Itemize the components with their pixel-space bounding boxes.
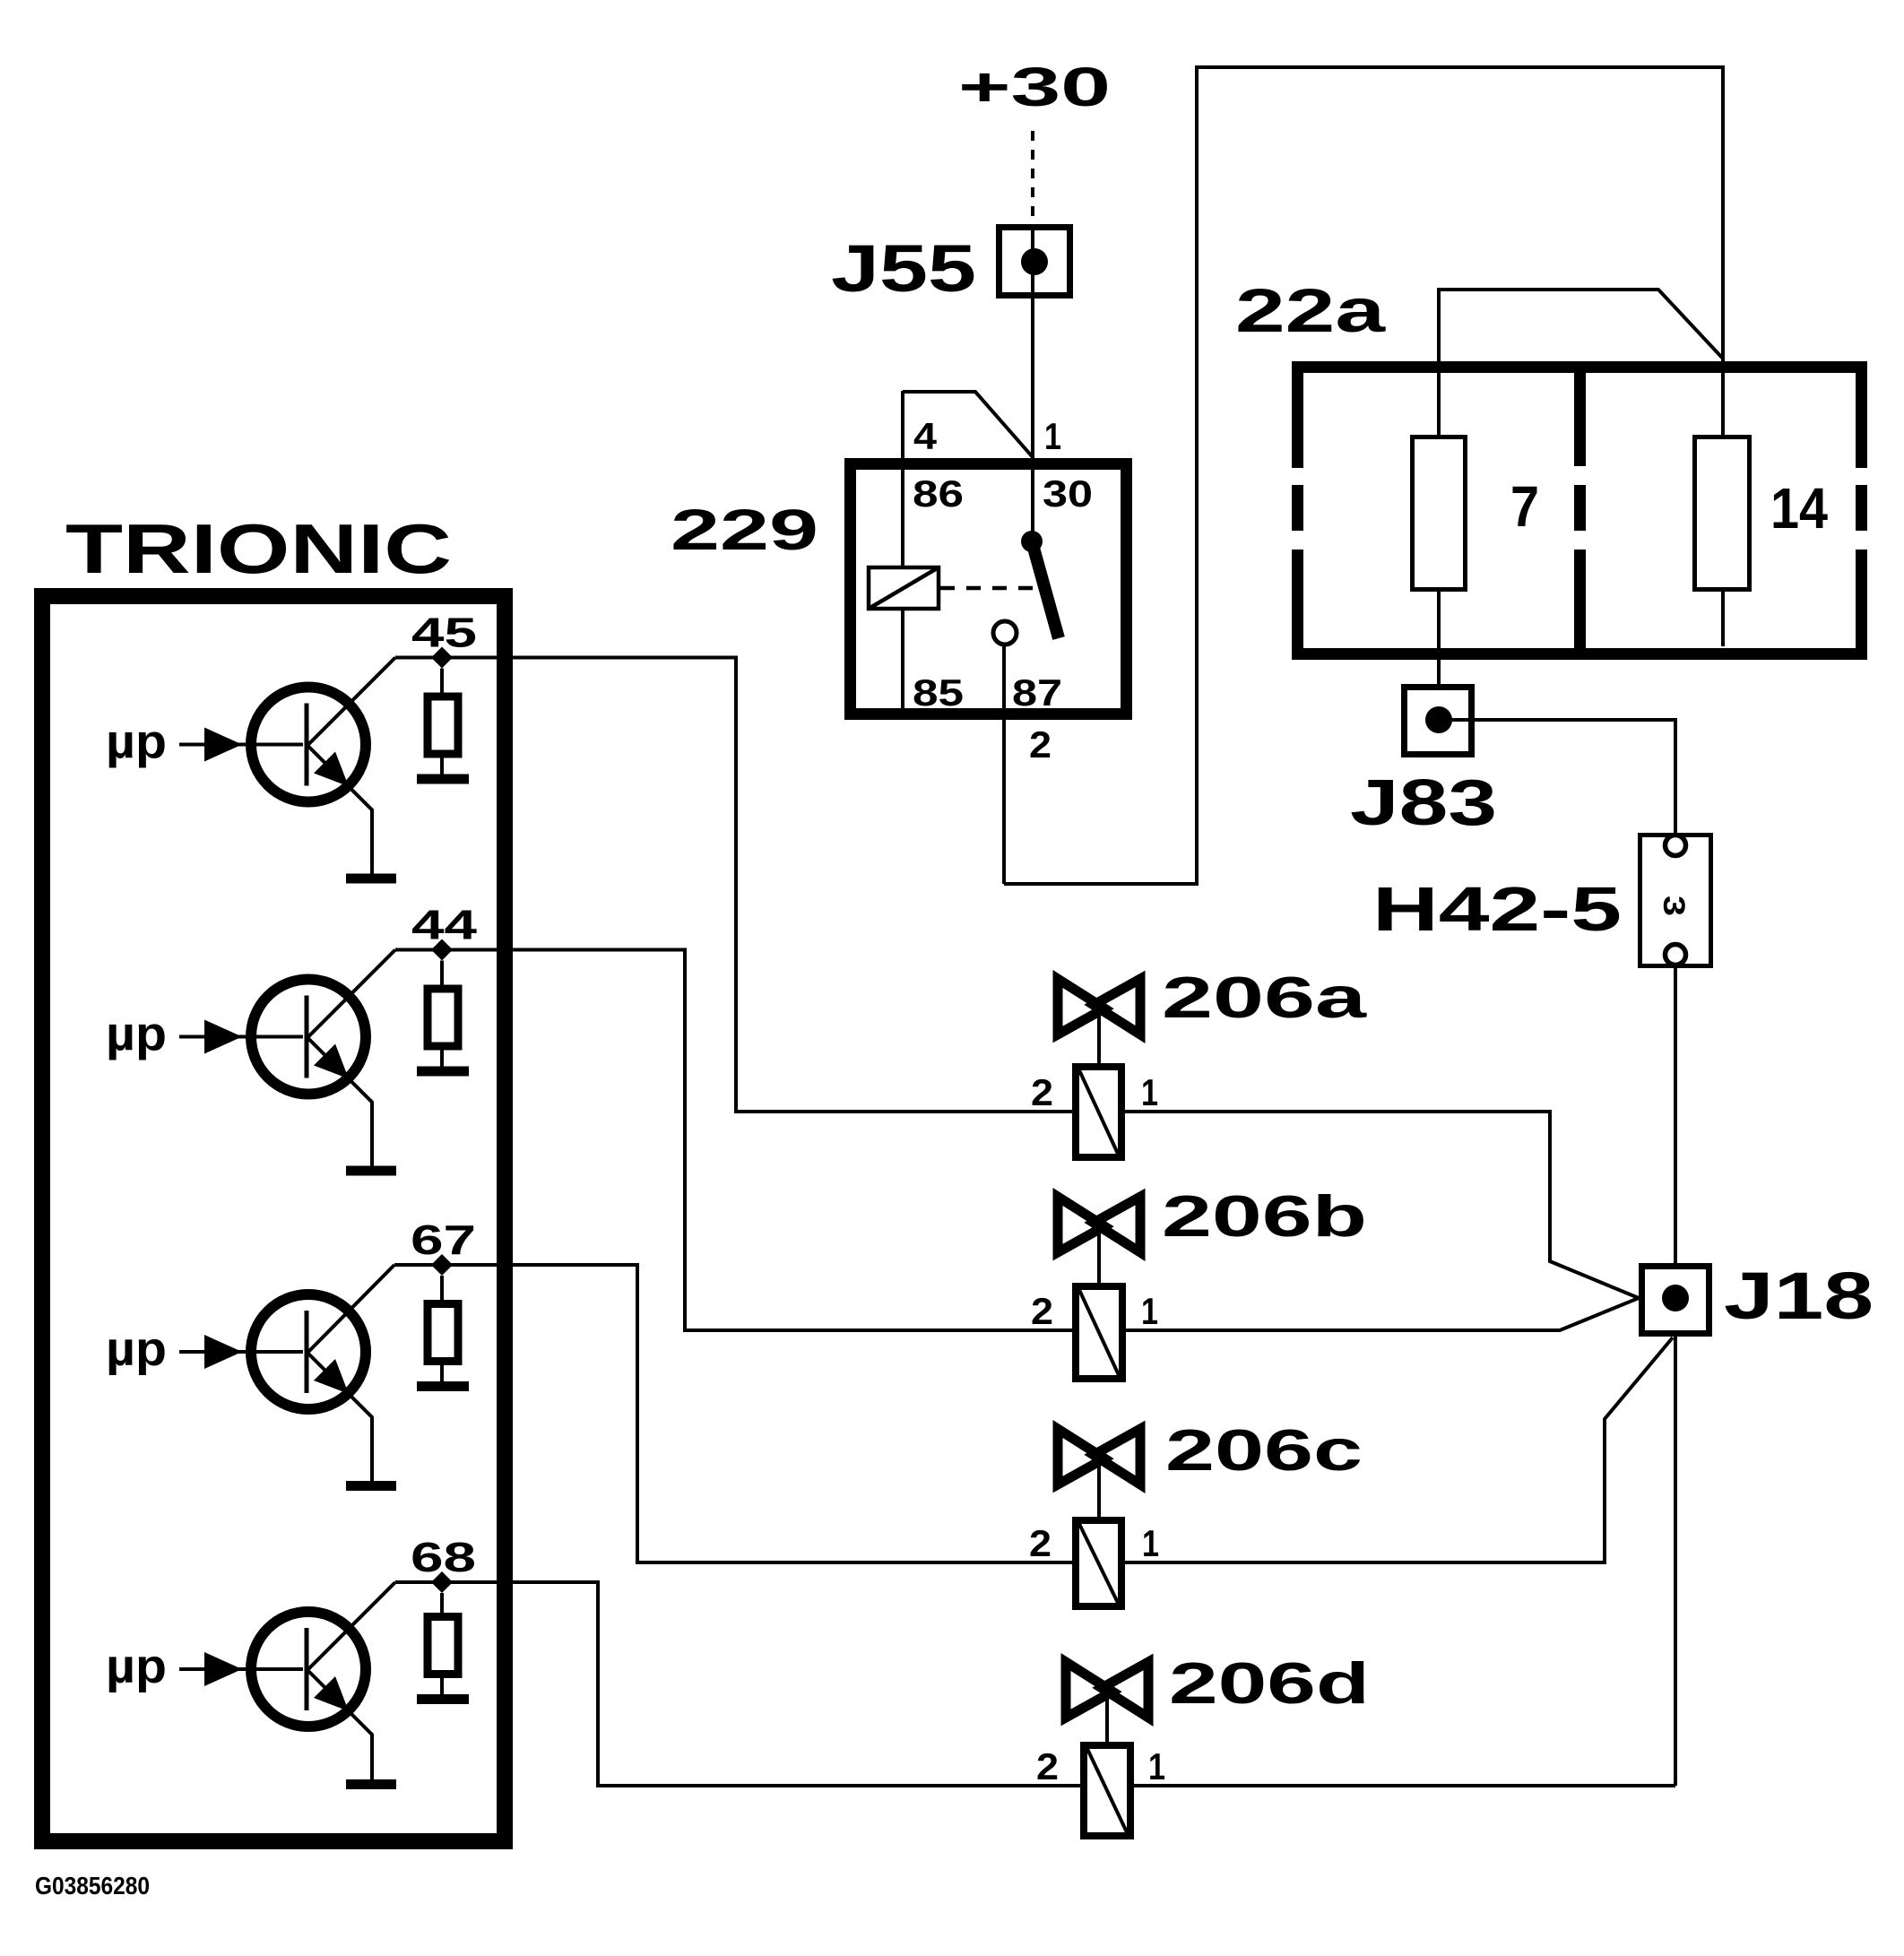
ground R1	[417, 775, 469, 784]
fuse box 22a top border	[1292, 361, 1867, 373]
svg-text:14: 14	[1770, 476, 1828, 541]
fuse 7	[1413, 437, 1466, 590]
svg-text:87: 87	[1012, 671, 1062, 714]
resistor R3	[428, 1276, 458, 1381]
injector coil 206b	[1076, 1286, 1122, 1379]
relay contact 87 circle	[993, 621, 1017, 645]
svg-text:85: 85	[913, 671, 964, 714]
input µp Q4	[179, 1652, 303, 1686]
svg-text:µp: µp	[106, 715, 167, 769]
wire relay pin 4 to coil	[901, 391, 904, 566]
ground Q4 emitter	[346, 1779, 396, 1789]
svg-text:2: 2	[1031, 1071, 1053, 1113]
svg-text:J55: J55	[831, 231, 976, 306]
wire pin 44 to injector 206b	[395, 950, 1072, 1331]
svg-text:206d: 206d	[1169, 1650, 1370, 1716]
relay coil	[869, 567, 939, 609]
svg-text:86: 86	[913, 472, 964, 515]
fuse 14	[1695, 437, 1750, 590]
junction diamond pin 44	[431, 939, 453, 961]
injector valve 206a	[1058, 979, 1140, 1034]
fuse box 22a centre dashed divider	[1574, 367, 1586, 648]
fuse box 22a bottom border	[1292, 648, 1867, 660]
svg-text:J83: J83	[1350, 767, 1497, 839]
svg-text:2: 2	[1029, 723, 1052, 766]
svg-text:µp: µp	[106, 1008, 167, 1061]
wire pin 68 to injector 206d	[395, 1582, 1080, 1786]
injector valve 206b	[1058, 1197, 1140, 1252]
transistor Q3	[251, 1265, 394, 1481]
wire pin 45 to injector 206a	[395, 658, 1072, 1112]
svg-text:G03856280: G03856280	[35, 1872, 150, 1900]
wire relay coil to 85	[901, 610, 904, 714]
injector coil 206a	[1076, 1067, 1121, 1157]
wire fuse 7 to J83	[1437, 592, 1441, 687]
injector valve 206d	[1066, 1662, 1148, 1718]
connector J55 box	[1000, 228, 1070, 296]
junction dot J55	[1021, 248, 1048, 275]
ground Q1 emitter	[346, 874, 396, 884]
svg-text:7: 7	[1510, 474, 1539, 539]
junction dot J18	[1662, 1285, 1689, 1311]
wire relay 87 down (pin 2)	[1002, 645, 1006, 884]
injector coil 206c	[1076, 1520, 1121, 1606]
wire fuse 14 lower stub	[1721, 592, 1725, 646]
wire jumper to fuse 7	[1439, 290, 1723, 435]
junction diamond pin 67	[431, 1254, 453, 1276]
wire J83 to H42-5	[1450, 720, 1675, 835]
input µp Q1	[179, 728, 303, 762]
svg-text:45: 45	[411, 610, 477, 656]
resistor R2	[428, 961, 458, 1067]
input µp Q2	[179, 1020, 303, 1054]
svg-text:H42-5: H42-5	[1372, 874, 1622, 944]
svg-text:µp: µp	[106, 1640, 167, 1693]
fuse box 22a left dashed border	[1292, 361, 1303, 660]
wire valve 206c to coil	[1097, 1461, 1101, 1517]
svg-text:1: 1	[1142, 1522, 1159, 1564]
wire 206a pin 1 to J18	[1125, 1112, 1639, 1298]
wire J55 through to relay pin 1	[1031, 226, 1034, 537]
transistor Q2	[251, 950, 395, 1166]
junction diamond pin 45	[431, 647, 453, 669]
svg-text:1: 1	[1148, 1745, 1165, 1787]
resistor R1	[428, 669, 458, 775]
lamp H42-5 top terminal	[1666, 835, 1686, 856]
svg-text:1: 1	[1141, 1071, 1158, 1113]
lamp H42-5 bottom terminal	[1666, 945, 1686, 965]
input µp Q3	[179, 1335, 303, 1369]
wire dashed +30 to J55	[1031, 131, 1034, 226]
relay switch arm	[1021, 531, 1059, 638]
wire valve 206b to coil	[1097, 1229, 1101, 1285]
wire valve 206d to coil	[1105, 1694, 1109, 1744]
fuse box 22a right dashed border	[1856, 361, 1867, 660]
ground R2	[417, 1067, 469, 1077]
wire relay output to fuse box feed	[1004, 67, 1723, 884]
relay 229 box	[851, 464, 1127, 714]
transistor Q4	[251, 1582, 395, 1779]
svg-text:2: 2	[1029, 1522, 1052, 1564]
ground R4	[417, 1694, 469, 1704]
svg-text:µp: µp	[106, 1322, 167, 1376]
svg-text:2: 2	[1031, 1290, 1053, 1332]
wire valve 206a to coil	[1097, 1011, 1101, 1065]
svg-text:TRIONIC: TRIONIC	[65, 509, 452, 588]
connector J18 box	[1642, 1267, 1709, 1334]
connector J83 box	[1405, 688, 1472, 755]
svg-text:+30: +30	[958, 56, 1111, 117]
junction dot J83	[1425, 706, 1452, 733]
wire 206b pin 1 to J18	[1126, 1298, 1639, 1330]
junction diamond pin 68	[431, 1571, 453, 1593]
wire 206c pin 1 to J18	[1125, 1337, 1673, 1562]
relay dashed actuator link	[940, 586, 1040, 591]
svg-text:44: 44	[411, 902, 478, 948]
ground R3	[417, 1381, 469, 1391]
svg-text:206b: 206b	[1162, 1183, 1367, 1249]
injector valve 206c	[1058, 1429, 1140, 1484]
wire bracket pin4 to pin1 node	[903, 392, 1033, 457]
svg-text:206c: 206c	[1165, 1417, 1363, 1483]
wire 206d pin 1 to J18	[1134, 1784, 1675, 1787]
svg-text:3: 3	[1657, 896, 1691, 916]
svg-text:30: 30	[1043, 472, 1093, 515]
lamp H42-5 box	[1640, 835, 1711, 966]
svg-text:1: 1	[1044, 415, 1061, 457]
svg-text:4: 4	[913, 415, 938, 457]
wire H42-5 to J18	[1674, 966, 1677, 1266]
resistor R4	[428, 1593, 458, 1694]
svg-text:1: 1	[1141, 1290, 1158, 1332]
svg-text:229: 229	[671, 498, 818, 562]
svg-text:22a: 22a	[1235, 276, 1386, 345]
wire J18 down to injector 206d return	[1674, 1337, 1677, 1786]
svg-text:J18: J18	[1724, 1259, 1874, 1333]
ground Q2 emitter	[346, 1166, 396, 1176]
ground Q3 emitter	[346, 1481, 396, 1491]
wire pin 67 to injector 206c	[394, 1265, 1072, 1562]
svg-text:206a: 206a	[1162, 965, 1367, 1030]
injector coil 206d	[1084, 1745, 1130, 1836]
TRIONIC ECU box	[42, 596, 505, 1841]
transistor Q1	[251, 658, 395, 874]
svg-text:2: 2	[1036, 1745, 1059, 1787]
